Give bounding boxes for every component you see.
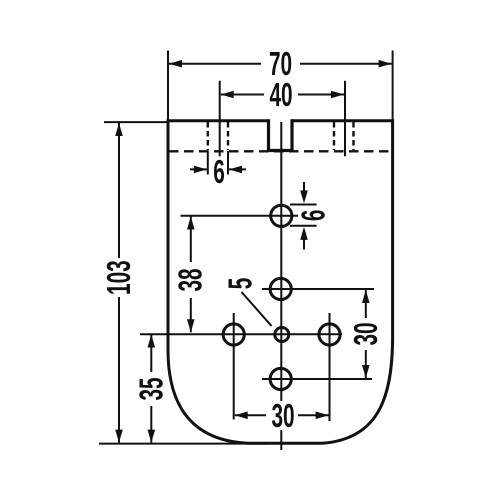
hidden line horizontal (169, 150, 392, 152)
middle hole center line (262, 288, 374, 290)
arrow dia6 top (300, 190, 308, 203)
svg-text:6: 6 (294, 210, 331, 222)
dimension line 70 (169, 63, 392, 65)
small center hole 5mm (275, 328, 289, 342)
arrow 30 bottom left (235, 412, 248, 420)
left hole (223, 324, 244, 345)
extension line 40 right (344, 81, 346, 157)
extension line 6 slot right (227, 151, 229, 175)
svg-text:6: 6 (213, 153, 225, 190)
svg-text:40: 40 (269, 76, 292, 113)
hidden slot right edge b (352, 122, 354, 150)
arrow 6 slot right (229, 166, 242, 174)
arrow 40 left (221, 91, 234, 99)
dimension line 35 (150, 335, 152, 443)
arrow dia6 bottom (300, 227, 308, 240)
top hole center line (181, 215, 299, 217)
svg-text:38: 38 (172, 268, 209, 291)
extension line 70 left (167, 51, 169, 121)
dimension line 30 bottom (235, 414, 329, 416)
extension line 6 slot left (207, 151, 209, 175)
hidden slot left edge b (227, 122, 229, 150)
bottom hole (270, 368, 291, 389)
center line vertical (280, 122, 282, 450)
leader line for 5 (242, 292, 272, 326)
arrow 38 top (187, 217, 195, 230)
arrow 38 bottom (187, 319, 195, 332)
svg-text:30: 30 (271, 397, 294, 434)
dimension line 103 (118, 123, 120, 443)
svg-text:30: 30 (347, 322, 384, 345)
arrow 30 bottom right (316, 412, 329, 420)
notch (269, 119, 293, 150)
arrow 103 top (115, 123, 123, 136)
arrow 35 top (148, 335, 156, 348)
arrow 70 right (379, 60, 392, 68)
arrow 40 right (331, 91, 344, 99)
top hole (271, 205, 292, 226)
arrow 30 right top (362, 290, 370, 303)
dimension line 40 (221, 94, 344, 96)
diameter 6 dimension of top hole (290, 182, 317, 250)
left hole center line vertical (233, 313, 235, 420)
arrow 70 left (169, 60, 182, 68)
hidden slot left edge a (207, 122, 209, 150)
middle hole (270, 278, 291, 299)
arrow 6 slot left (190, 168, 246, 170)
hidden slot right edge a (333, 122, 335, 150)
right hole center line vertical (329, 313, 331, 421)
extension line 70 right (392, 51, 394, 121)
right hole (319, 324, 340, 345)
dimension line 30 right (365, 290, 367, 378)
svg-text:35: 35 (133, 377, 170, 400)
svg-text:5: 5 (222, 278, 259, 290)
extension line 103 top (104, 121, 168, 123)
arrow 103 bottom (115, 430, 123, 443)
hole row center line (140, 333, 342, 335)
extension line 103/35 bottom (99, 443, 268, 445)
arrow 35 bottom (148, 430, 156, 443)
dimension line 38 (190, 217, 192, 333)
extension line 40 left (219, 81, 221, 157)
arrow 30 right bottom (362, 365, 370, 378)
svg-text:103: 103 (100, 260, 137, 295)
plate outline (168, 121, 393, 444)
bottom hole center line (262, 378, 372, 380)
